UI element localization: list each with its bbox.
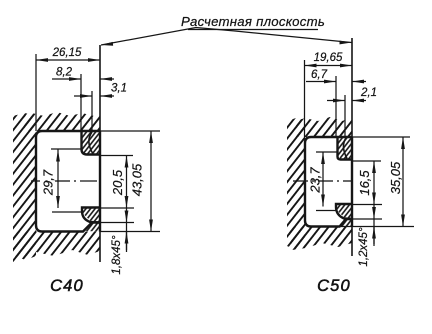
hatch bottom lip C50 (336, 204, 352, 227)
dimension 35,05 (340, 137, 414, 227)
profile C40 contour (36, 131, 100, 232)
hatch left wall C40 (13, 113, 36, 260)
dimension 19,65 (305, 52, 353, 137)
hatch top flange C50 (296, 117, 352, 137)
dimension 6,7 (306, 69, 366, 137)
svg-text:1,8x45°: 1,8x45° (111, 235, 123, 275)
svg-text:С50: С50 (317, 277, 351, 295)
dimension 26,15 (36, 47, 100, 131)
svg-text:3,1: 3,1 (111, 83, 127, 95)
inner lip curve top C50 (343, 138, 347, 159)
svg-text:6,7: 6,7 (311, 69, 328, 81)
hatch left wall C50 (287, 118, 305, 250)
svg-text:С40: С40 (50, 277, 84, 295)
svg-text:2,1: 2,1 (360, 87, 377, 99)
dimension chamfer 1,8x45 (100, 211, 134, 275)
dimension 8,2 (52, 67, 114, 132)
svg-text:26,15: 26,15 (52, 47, 82, 59)
dimension 23,7 (308, 152, 338, 211)
dimension 3,1 (74, 83, 127, 132)
centerline C50 (293, 180, 351, 182)
dimension 29,7 (41, 149, 83, 212)
profile C50 contour (305, 137, 352, 227)
svg-text:29,7: 29,7 (41, 169, 56, 196)
centerline C40 (31, 180, 97, 182)
svg-text:8,2: 8,2 (56, 67, 73, 79)
svg-text:Расчетная плоскость: Расчетная плоскость (181, 14, 325, 29)
svg-text:1,2x45°: 1,2x45° (358, 227, 370, 267)
hatch bottom lip C40 (82, 208, 100, 232)
hatch top lip C50 (338, 137, 353, 160)
dimension 20,5 (100, 156, 134, 251)
svg-text:43,05: 43,05 (130, 163, 145, 196)
design plane line C40 (99, 45, 101, 262)
leader line to both design planes (101, 28, 352, 46)
inner lip curve top C40 (89, 132, 93, 153)
svg-text:35,05: 35,05 (388, 161, 403, 194)
dimension 2,1 (327, 87, 377, 137)
dimension 16,5 (352, 161, 382, 244)
svg-text:23,7: 23,7 (308, 167, 323, 194)
title: Расчетная плоскость (181, 14, 325, 30)
hatch bottom flange C50 (288, 227, 352, 251)
svg-text:19,65: 19,65 (314, 52, 343, 64)
design plane line C50 (351, 38, 353, 256)
hatch top flange C40 (24, 112, 100, 131)
dimension chamfer 1,2x45 (352, 207, 382, 267)
hatch top lip C40 (82, 131, 101, 155)
svg-text:20,5: 20,5 (110, 169, 125, 196)
hatch bottom flange C40 (13, 232, 100, 263)
svg-text:16,5: 16,5 (357, 170, 372, 196)
dimension 43,05 (100, 131, 160, 232)
